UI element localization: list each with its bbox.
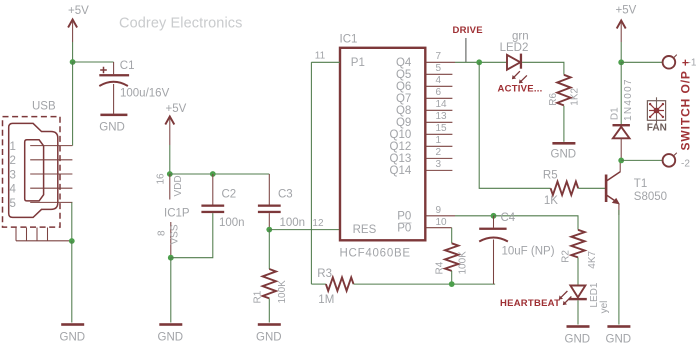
svg-text:S8050: S8050	[634, 191, 667, 203]
diode D1 1N4007	[613, 124, 630, 160]
svg-text:+5V: +5V	[68, 5, 89, 17]
svg-text:T1: T1	[634, 178, 647, 190]
svg-text:grn: grn	[512, 31, 529, 43]
ground symbol (C1)	[99, 114, 127, 134]
wire pin11 to R3 (vertical)	[310, 62, 312, 284]
svg-text:4: 4	[436, 75, 442, 86]
resistor R1	[263, 230, 276, 323]
svg-text:Q13: Q13	[390, 153, 412, 165]
svg-text:4: 4	[10, 184, 17, 196]
resistor R6	[557, 75, 570, 142]
wire +5V to D1	[620, 62, 622, 124]
ic IC1 body HCF4060BE	[340, 48, 425, 241]
IC1P power pin 8 VSS	[170, 222, 172, 258]
USB connector inner opening	[25, 140, 44, 201]
svg-text:Q9: Q9	[396, 117, 411, 129]
capacitor C2	[201, 174, 224, 213]
pin 3	[30, 173, 72, 175]
wire +5V to USB pin1	[72, 62, 74, 146]
wire P0 to R2	[494, 216, 579, 230]
supply symbol +5V (middle)	[165, 103, 186, 174]
node junction VDD	[167, 171, 173, 177]
supply symbol +5V (left)	[68, 5, 89, 62]
USB shield dashed outline	[3, 117, 61, 228]
svg-text:ACTIVE...: ACTIVE...	[498, 84, 543, 95]
svg-text:2: 2	[436, 147, 442, 158]
wire Q4 to LED2	[455, 61, 507, 63]
node junction R3/R4/C4	[449, 281, 455, 287]
svg-text:R5: R5	[543, 170, 558, 182]
svg-text:100n: 100n	[219, 217, 245, 229]
svg-text:R3: R3	[317, 268, 332, 280]
capacitor C3	[258, 174, 281, 230]
svg-text:8: 8	[157, 230, 168, 236]
node junction +5V/terminal 1	[618, 59, 624, 65]
svg-text:Q12: Q12	[390, 141, 412, 153]
pin line Q10/15	[425, 133, 452, 135]
pin 2	[30, 159, 72, 161]
svg-text:Q14: Q14	[390, 165, 412, 177]
svg-text:VSS: VSS	[170, 224, 181, 244]
svg-text:SWITCH O/P +: SWITCH O/P +	[679, 58, 693, 150]
svg-text:-2: -2	[681, 159, 690, 170]
svg-text:1M: 1M	[318, 294, 334, 306]
svg-text:R6: R6	[548, 92, 559, 105]
svg-text:GND: GND	[60, 332, 86, 344]
wire to C1	[73, 61, 114, 63]
svg-text:1K: 1K	[544, 195, 558, 207]
ground symbol (LED1)	[565, 325, 591, 345]
svg-text:4K7: 4K7	[587, 250, 598, 268]
svg-text:2: 2	[10, 155, 16, 167]
wire emitter to ground	[618, 210, 620, 325]
svg-text:16: 16	[156, 173, 167, 185]
wire LED2 to R6	[522, 62, 564, 75]
terminal pad -1	[663, 55, 697, 69]
svg-text:RES: RES	[353, 224, 377, 236]
pin line Q7/6	[425, 97, 452, 99]
svg-text:P0: P0	[397, 210, 411, 222]
fan icon	[647, 97, 665, 123]
svg-text:P0: P0	[397, 223, 411, 235]
svg-text:GND: GND	[99, 122, 125, 134]
capacitor C1	[99, 62, 129, 114]
pin 4	[30, 187, 72, 189]
wire pin 11	[311, 61, 340, 63]
svg-text:R2: R2	[561, 250, 572, 263]
pin line Q5/5	[425, 73, 452, 75]
wire to ground	[71, 241, 73, 323]
ground symbol (R1)	[256, 323, 282, 343]
svg-text:9: 9	[436, 205, 442, 216]
svg-text:GND: GND	[606, 334, 632, 346]
svg-text:100u/16V: 100u/16V	[120, 88, 170, 100]
pin line Q14/3	[425, 169, 452, 171]
svg-text:IC1: IC1	[340, 34, 358, 46]
svg-text:+5V: +5V	[616, 5, 637, 17]
svg-text:12: 12	[312, 218, 324, 229]
wire to terminal 1	[621, 61, 663, 63]
svg-text:yel: yel	[599, 301, 610, 314]
led LED2	[507, 54, 527, 84]
svg-text:10uF (NP): 10uF (NP)	[502, 246, 555, 258]
wire VDD rail	[170, 173, 269, 175]
resistor R2	[571, 230, 584, 286]
svg-text:3: 3	[10, 169, 16, 181]
svg-text:DRIVE: DRIVE	[453, 25, 483, 36]
svg-text:LED2: LED2	[500, 42, 529, 54]
svg-text:Q7: Q7	[396, 93, 411, 105]
led LED1	[559, 286, 587, 306]
ground symbol (T1)	[606, 325, 632, 345]
svg-text:GND: GND	[158, 332, 184, 344]
svg-text:Codrey Electronics: Codrey Electronics	[119, 16, 243, 32]
svg-text:1: 1	[10, 141, 16, 153]
ground symbol (USB)	[60, 323, 86, 343]
wire RES pin 12	[269, 229, 340, 231]
svg-text:HCF4060BE: HCF4060BE	[340, 248, 411, 260]
svg-text:R1: R1	[253, 290, 264, 303]
pin 5	[30, 201, 72, 203]
svg-text:C4: C4	[501, 212, 516, 224]
node junction shield/gnd	[69, 238, 75, 244]
node junction C3/RES	[266, 227, 272, 233]
svg-text:1: 1	[436, 135, 442, 146]
svg-text:5: 5	[436, 63, 442, 74]
svg-text:+5V: +5V	[166, 103, 187, 115]
svg-text:Q10: Q10	[390, 129, 412, 141]
svg-text:15: 15	[436, 123, 448, 134]
svg-text:Q6: Q6	[396, 81, 411, 93]
pin line Q9/13	[425, 121, 452, 123]
svg-text:100n: 100n	[280, 217, 306, 229]
svg-text:6: 6	[436, 87, 442, 98]
wire VSS to C2	[171, 213, 213, 258]
node junction VSS	[168, 255, 174, 261]
pin line Q4/7	[425, 61, 455, 63]
svg-text:D1: D1	[610, 107, 621, 120]
svg-text:11: 11	[315, 51, 326, 62]
resistor R5	[551, 182, 606, 195]
label stub	[465, 38, 467, 62]
svg-text:FAN: FAN	[647, 123, 667, 134]
pin line Q6/4	[425, 85, 452, 87]
svg-text:13: 13	[436, 111, 448, 122]
pin line Q13/2	[425, 157, 452, 159]
pin line !P0/10	[425, 227, 451, 229]
svg-text:10: 10	[436, 217, 448, 228]
svg-text:GND: GND	[551, 149, 577, 161]
node junction C2 top	[210, 171, 216, 177]
USB shield pins	[16, 228, 72, 241]
svg-text:1K2: 1K2	[570, 87, 581, 105]
svg-text:100K: 100K	[277, 280, 288, 304]
svg-text:GND: GND	[565, 334, 591, 346]
supply symbol +5V (right)	[616, 5, 637, 63]
pin line Q12/1	[425, 145, 452, 147]
wire VSS to ground	[170, 258, 172, 323]
ground symbol (IC1P)	[158, 323, 184, 343]
node junction D1/terminal 2	[618, 158, 624, 164]
svg-text:100K: 100K	[458, 251, 469, 275]
wire to terminal 2	[621, 159, 663, 161]
ground symbol (R6)	[551, 142, 577, 161]
IC1P power pin 16 VDD	[169, 174, 171, 200]
pin line Q8/14	[425, 109, 452, 111]
svg-text:14: 14	[436, 99, 448, 110]
wire LED1 to ground	[577, 300, 579, 324]
capacitor C4	[479, 216, 508, 284]
USB connector outer shell	[9, 123, 58, 217]
svg-text:5: 5	[10, 198, 16, 210]
svg-text:R4: R4	[435, 261, 446, 274]
node junction DRIVE	[476, 59, 482, 65]
svg-text:HEARTBEAT: HEARTBEAT	[500, 298, 560, 309]
svg-text:Q4: Q4	[396, 57, 412, 69]
svg-text:C1: C1	[120, 60, 135, 72]
wire USB pin5 down	[71, 202, 73, 241]
svg-text:Q5: Q5	[396, 69, 411, 81]
svg-text:3: 3	[436, 159, 442, 170]
pin line P0/9	[425, 215, 455, 217]
svg-text:P1: P1	[351, 57, 365, 69]
svg-text:USB: USB	[32, 101, 56, 113]
svg-text:C2: C2	[222, 189, 237, 201]
transistor T1 S8050	[605, 160, 620, 215]
node junction P0/C4	[491, 213, 497, 219]
svg-text:1N4007: 1N4007	[623, 78, 634, 121]
svg-text:C3: C3	[278, 189, 293, 201]
node junction +5V/USB/C1	[70, 59, 76, 65]
pin 1	[30, 145, 72, 147]
terminal pad -2	[663, 153, 691, 170]
svg-text:IC1P: IC1P	[164, 208, 190, 220]
svg-text:VDD: VDD	[173, 175, 184, 196]
resistor R4	[445, 228, 458, 284]
wire DRIVE down to R5	[479, 62, 550, 188]
svg-text:Q8: Q8	[396, 105, 411, 117]
svg-text:GND: GND	[256, 332, 282, 344]
svg-text:7: 7	[436, 51, 442, 62]
resistor R3	[311, 277, 495, 290]
wire P0 net	[455, 215, 494, 217]
